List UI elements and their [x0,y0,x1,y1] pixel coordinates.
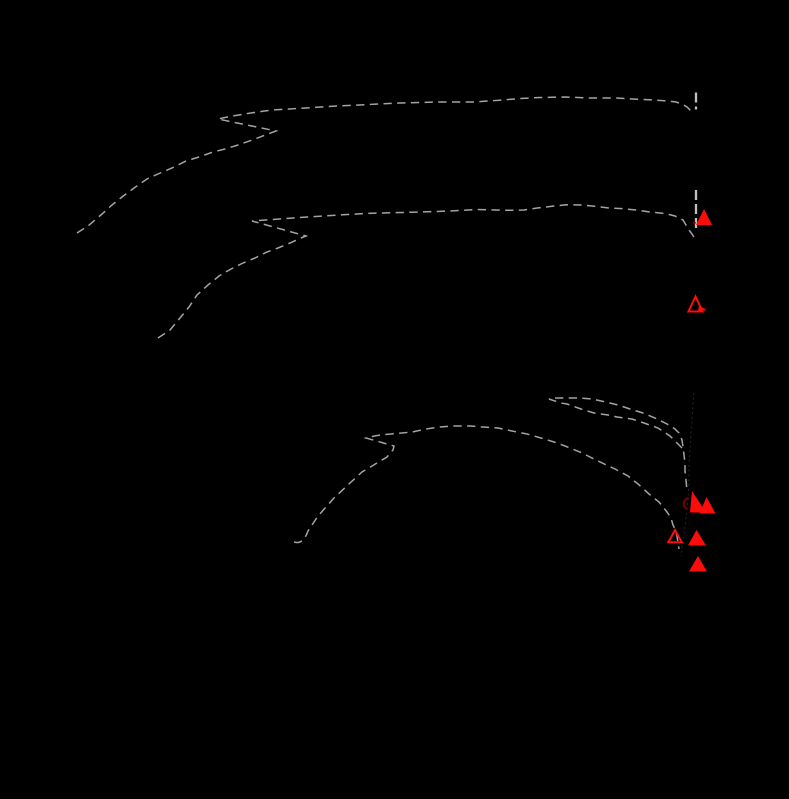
small red wedge at lower-right of T2 [698,305,706,312]
filled red triangle T1 (jump point of B) [696,209,712,225]
open red triangle T4 [668,530,681,542]
trajectory B: rising tail, hairpin arrow, slow-manifold line [158,205,695,338]
open red triangle T2 [689,297,703,312]
faint dark jump line near the fold [681,393,694,556]
dark red fleck right of open triangle T2 [704,309,706,311]
vertical dashed drop above trajectory A end [695,93,697,110]
vertical dashed drop above triangle T1 [695,190,697,228]
filled red triangle T3-left [690,491,706,513]
filled red triangle T6 [689,556,707,572]
dark red fleck left of triangle T1 [693,221,696,224]
trajectory D: rising tail, hairpin arrow, descent to jump point [294,426,679,549]
trajectory A: rising tail, hairpin arrow, slow-manifold line [77,97,692,233]
filled red triangle T3-right [700,497,716,514]
trajectory C: canard loop near the fold [549,398,687,491]
dark red arc behind triangle pair T3 [684,498,689,509]
filled red triangle T5 [688,530,706,546]
